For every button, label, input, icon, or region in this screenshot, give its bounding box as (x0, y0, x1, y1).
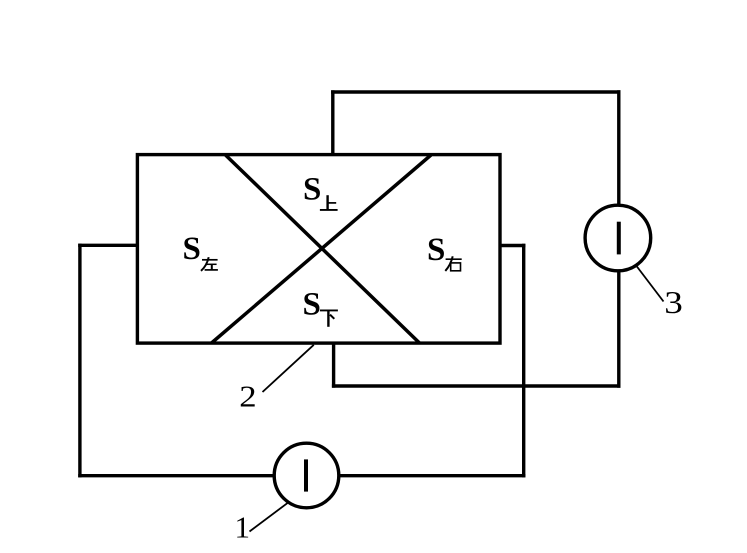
diagonal divider (top-right to bottom-left) (212, 155, 432, 343)
label S_you: drawn CJK 右 subscript (445, 256, 461, 271)
wire: top horizontal bus of meter-3 loop (331, 90, 620, 93)
wire: bottom horizontal of meter-3 loop (332, 384, 621, 387)
leader line to label 3 (637, 266, 664, 302)
svg-text:1: 1 (235, 510, 251, 545)
leader line to label 1 (250, 503, 288, 532)
wire: stub to plate right terminal (500, 244, 525, 247)
leader line to label 2 (263, 345, 314, 392)
svg-text:3: 3 (664, 285, 683, 320)
wire: right vertical of meter-1 loop (crosses meter-3 bottom bus) (522, 244, 525, 478)
diagonal divider (top-left to bottom-right) (226, 155, 420, 343)
label 2 (239, 380, 256, 414)
meter 1: circle (274, 443, 339, 508)
label 3 (664, 285, 683, 320)
label S_zuo: drawn CJK 左 subscript (201, 257, 218, 271)
plate 2: rectangle (quadrant photodetector) (137, 155, 500, 344)
wire: right vertical of meter-3 loop (passes through meter 3) (617, 90, 620, 387)
wire: from plate top terminal up to top bus (331, 90, 334, 154)
wire: from bottom bus up to plate bottom terminal (332, 343, 335, 388)
label S_shang: drawn CJK 上 subscript (320, 195, 338, 210)
svg-text:S: S (427, 232, 445, 268)
wire: left vertical of meter-1 loop (78, 244, 81, 478)
svg-text:S: S (303, 171, 321, 207)
meter 3: circle (585, 205, 651, 271)
svg-text:2: 2 (239, 380, 256, 414)
svg-text:S: S (183, 231, 201, 267)
wire: bottom horizontal of meter-1 loop (passes through meter 1) (78, 474, 525, 477)
meter 1: vertical bar (304, 459, 308, 491)
meter 3: vertical bar (617, 222, 621, 255)
wire: stub from plate left terminal (78, 244, 137, 247)
svg-text:S: S (303, 286, 321, 322)
label S_xia: drawn CJK 下 subscript (320, 310, 338, 326)
